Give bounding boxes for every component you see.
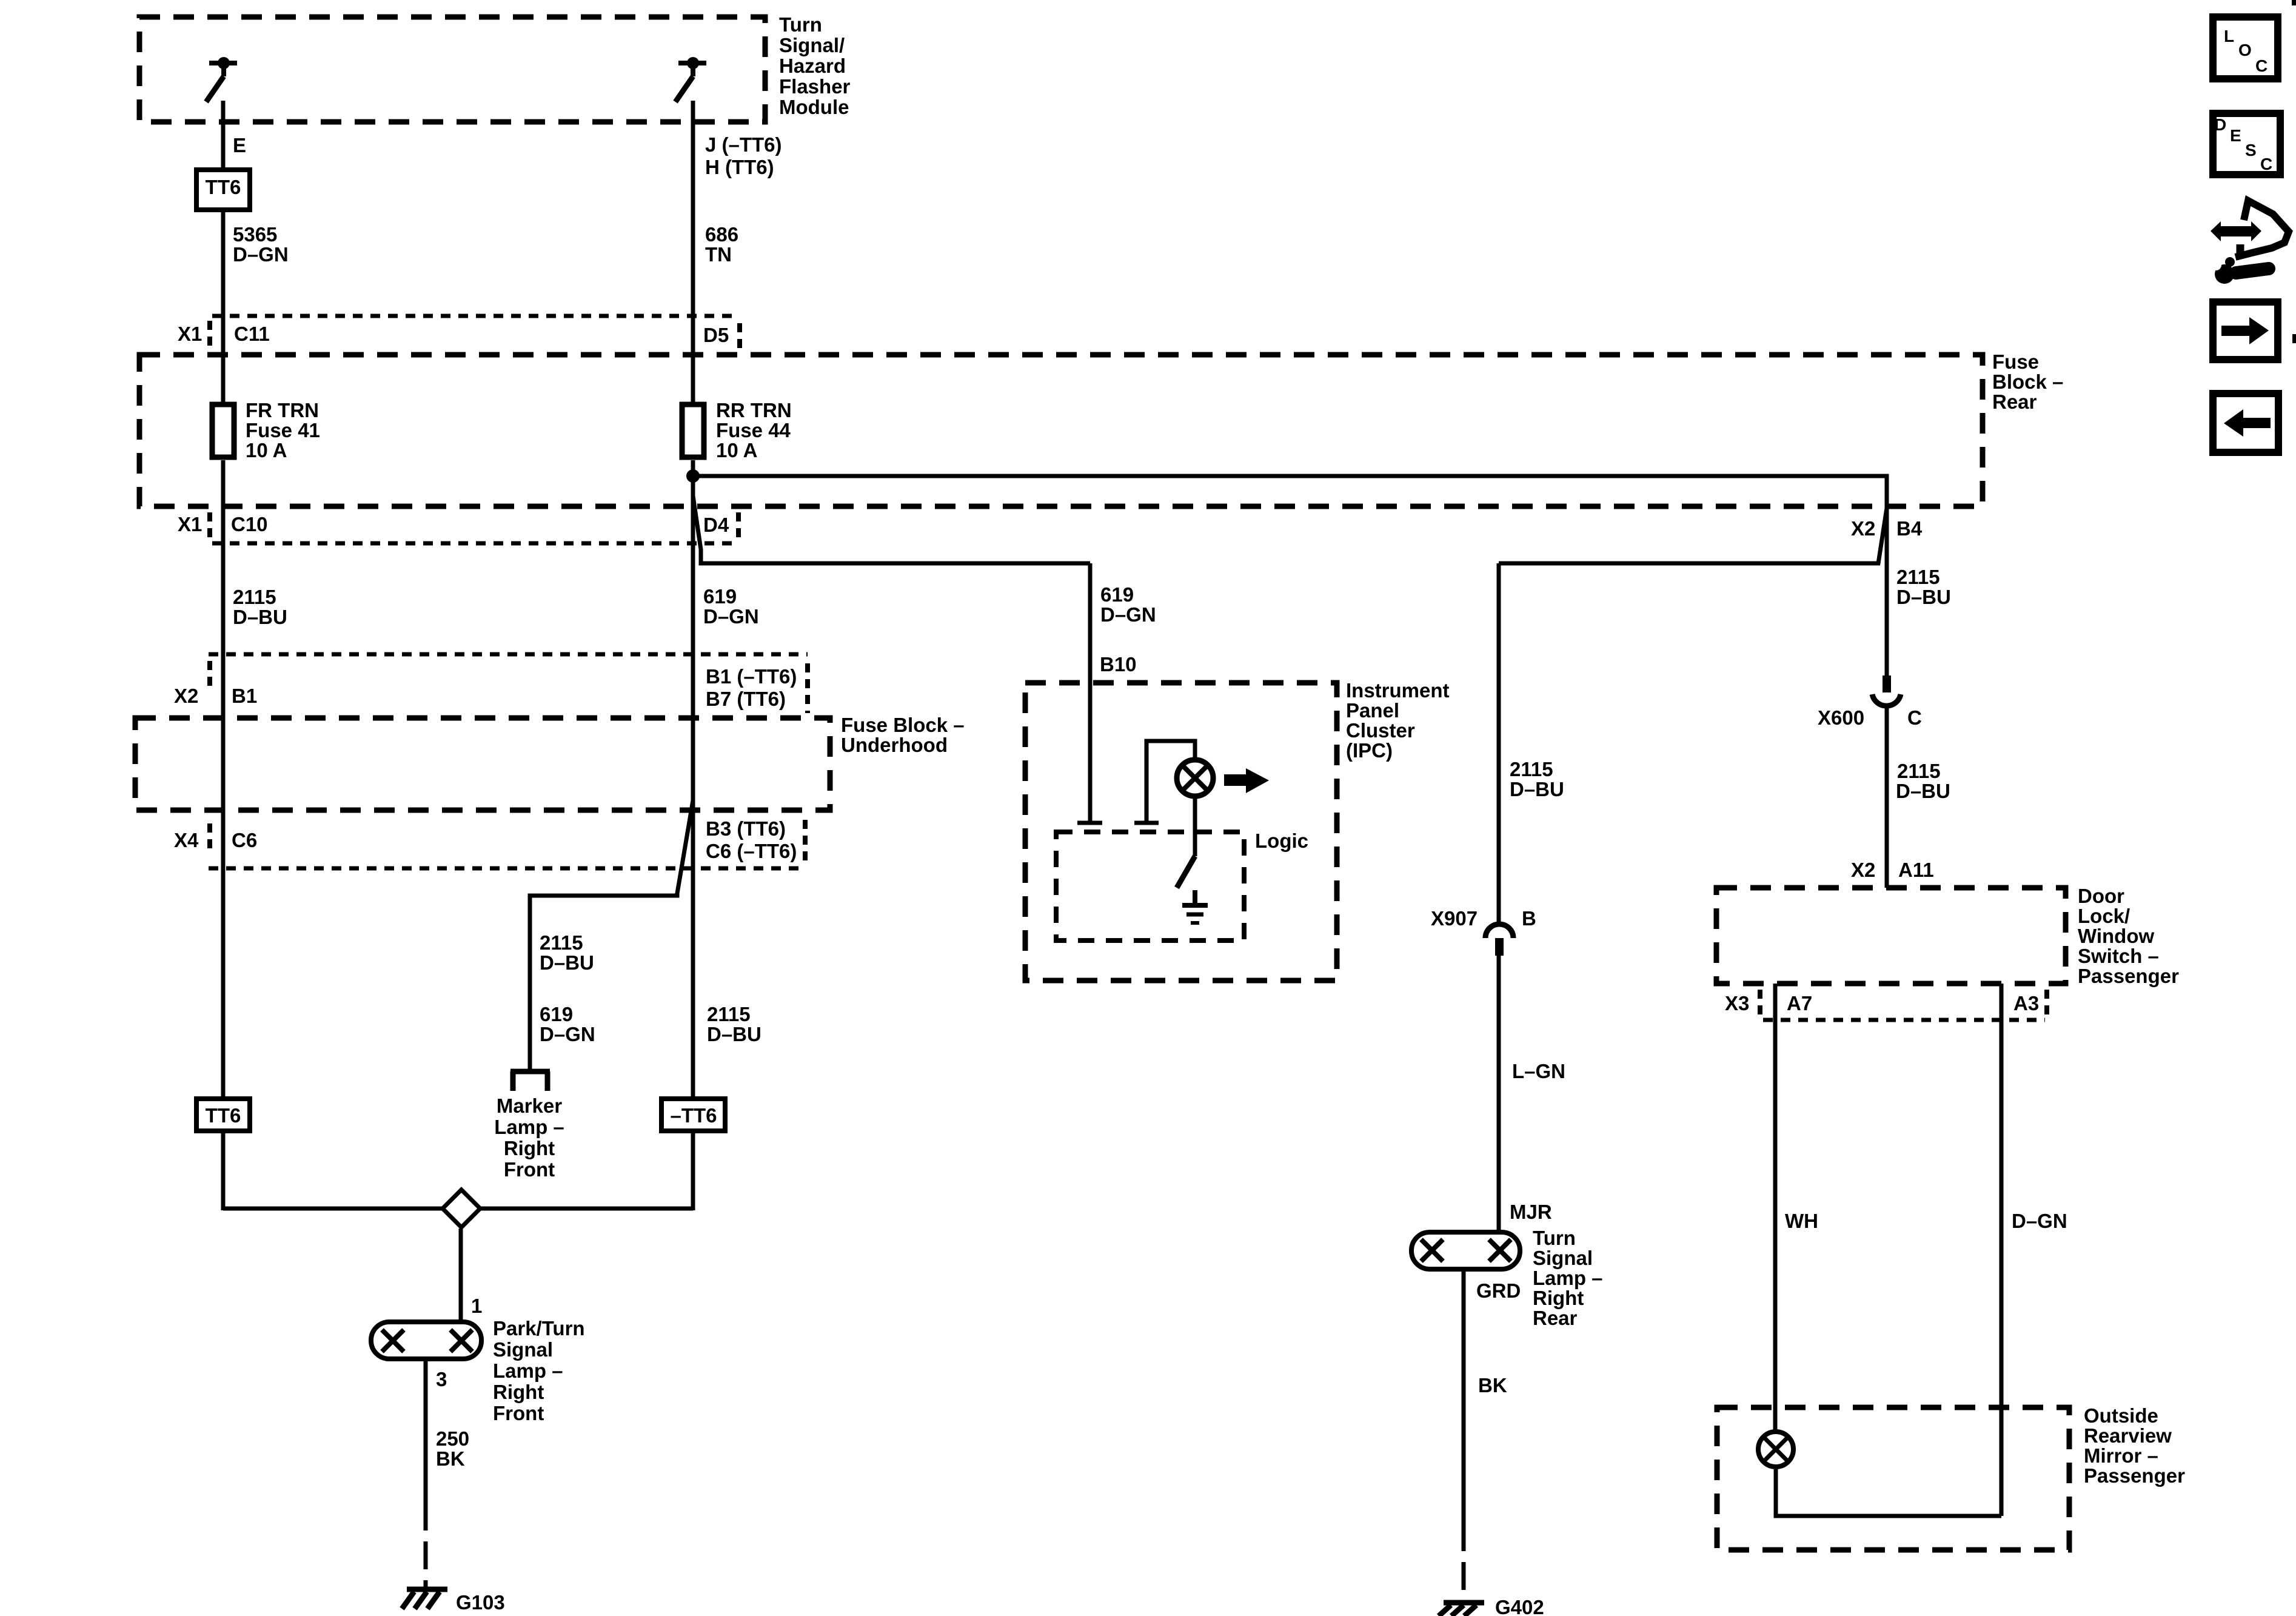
wire X907 to MJR lamp (L-GN)	[1497, 956, 1501, 1231]
svg-text:C: C	[2260, 155, 2272, 173]
svg-text:E: E	[233, 134, 246, 156]
svg-text:BK: BK	[1478, 1374, 1507, 1396]
switch contact right (flasher output J/H)	[675, 57, 706, 102]
inline connector X600 pin C	[1872, 676, 1901, 706]
wire slant at B3 to marker lamp branch (2115 D-BU / 619 D-GN)	[530, 800, 693, 1069]
wire label 2115 D-BU X907 branch	[1510, 758, 1564, 800]
IPC label	[1346, 679, 1450, 762]
svg-text:B10: B10	[1100, 653, 1137, 676]
svg-text:Signal/: Signal/	[779, 34, 845, 56]
svg-text:C6 (–TT6): C6 (–TT6)	[706, 840, 797, 862]
inline connector X907 pin B	[1485, 924, 1513, 956]
connector labels X2 A11	[1851, 859, 1934, 881]
svg-text:X600: X600	[1818, 706, 1864, 729]
svg-text:Lamp –: Lamp –	[494, 1116, 564, 1138]
svg-text:D–GN: D–GN	[540, 1023, 595, 1045]
svg-text:(IPC): (IPC)	[1346, 739, 1393, 762]
svg-text:–TT6: –TT6	[670, 1104, 717, 1127]
svg-text:S: S	[2245, 141, 2257, 159]
pin label D4	[703, 514, 729, 536]
svg-text:C6: C6	[232, 829, 257, 851]
svg-text:TT6: TT6	[206, 1104, 241, 1127]
svg-text:Outside: Outside	[2084, 1404, 2158, 1427]
ground label G103	[456, 1591, 505, 1614]
svg-text:B: B	[1522, 907, 1536, 930]
svg-text:Instrument: Instrument	[1346, 679, 1450, 702]
connector X907 labels	[1431, 907, 1536, 930]
svg-text:Fuse: Fuse	[1992, 350, 2039, 373]
svg-text:C: C	[2255, 56, 2268, 75]
wire label L-GN	[1512, 1060, 1565, 1082]
svg-text:BK: BK	[436, 1447, 465, 1470]
IPC turn indicator lamp (circle X)	[1177, 760, 1213, 796]
svg-text:B1 (–TT6): B1 (–TT6)	[706, 665, 797, 688]
svg-text:250: 250	[436, 1427, 469, 1450]
connector row X1/C11-D5 dotted line	[210, 316, 740, 348]
wire A7 to mirror lamp (WH)	[1773, 984, 1778, 1430]
svg-text:D–BU: D–BU	[707, 1023, 761, 1045]
svg-text:Underhood: Underhood	[841, 734, 948, 756]
fuse 44 label	[716, 399, 792, 461]
svg-text:B4: B4	[1896, 517, 1923, 540]
svg-text:G402: G402	[1495, 1596, 1544, 1616]
wire down to X907 (2115 D-BU)	[1497, 563, 1501, 922]
vehicle diagnostic icon (car outline, double arrow, wrench)	[2211, 201, 2289, 284]
bus wire between front lamp wires	[223, 1207, 693, 1211]
wire label BK	[1478, 1374, 1507, 1396]
svg-text:D4: D4	[703, 514, 729, 536]
svg-text:Module: Module	[779, 96, 849, 118]
IPC lamp feed loop wire	[1134, 741, 1195, 823]
svg-text:1: 1	[471, 1295, 482, 1317]
fuse block rear label	[1992, 350, 2063, 413]
svg-text:Rear: Rear	[1992, 391, 2037, 413]
wire label 619 D-GN left lamp branch	[540, 1003, 595, 1045]
Fuse Block - Rear box	[139, 355, 1983, 506]
svg-text:X2: X2	[174, 685, 198, 707]
wire label 2115 D-BU to X600	[1896, 760, 1950, 802]
wire left bottom TT6 to bus	[221, 1133, 226, 1210]
wire label 619 D-GN mid	[703, 585, 759, 628]
svg-text:RR TRN: RR TRN	[716, 399, 792, 421]
wire right -TT6 box to bus	[691, 1133, 695, 1210]
svg-text:X1: X1	[178, 513, 202, 535]
svg-text:Door: Door	[2078, 885, 2124, 907]
svg-text:Right: Right	[1533, 1287, 1584, 1309]
wire B10 drop into IPC	[1077, 563, 1102, 823]
park/turn lamp label	[493, 1317, 585, 1424]
svg-text:C11: C11	[234, 323, 270, 345]
svg-text:E: E	[2230, 126, 2241, 145]
svg-text:Block –: Block –	[1992, 370, 2063, 393]
svg-text:X2: X2	[1851, 517, 1875, 540]
page edge tick right	[2292, 334, 2296, 343]
Fuse Block - Underhood box	[135, 718, 830, 810]
svg-text:X3: X3	[1725, 992, 1749, 1014]
svg-text:C10: C10	[231, 513, 268, 535]
svg-text:Front: Front	[493, 1402, 544, 1424]
svg-text:G103: G103	[456, 1591, 505, 1614]
wire B4 down to X600 (2115 D-BU)	[1885, 508, 1889, 676]
svg-text:Fuse Block –: Fuse Block –	[841, 714, 965, 736]
fuse 41 label	[246, 399, 320, 461]
LOC icon box	[2213, 17, 2278, 79]
wire park/turn lamp pin 3 (250 BK)	[424, 1360, 428, 1591]
connector labels X2 B4	[1851, 517, 1923, 540]
svg-text:D5: D5	[703, 324, 729, 346]
svg-text:L: L	[2224, 27, 2234, 45]
svg-text:Rear: Rear	[1533, 1307, 1578, 1329]
svg-text:Turn: Turn	[779, 13, 822, 36]
pin label D5	[703, 324, 729, 346]
marker lamp right front connector symbol	[510, 1071, 550, 1091]
svg-text:X4: X4	[174, 829, 199, 851]
wire label 2115 D-BU right	[1896, 566, 1951, 608]
svg-text:A7: A7	[1787, 992, 1812, 1014]
svg-text:D–GN: D–GN	[1100, 603, 1156, 626]
svg-text:Signal: Signal	[493, 1338, 553, 1361]
Turn Signal/Hazard Flasher Module box	[139, 17, 765, 122]
svg-text:D: D	[2214, 115, 2226, 134]
svg-text:Right: Right	[493, 1381, 544, 1403]
wire label 2115 D-BU left	[233, 586, 287, 628]
wire horizontal fuse44 junction to fuse block rear right side	[693, 476, 1887, 508]
module name label	[779, 13, 851, 118]
svg-text:Park/Turn: Park/Turn	[493, 1317, 585, 1339]
TT6 option box top	[196, 170, 250, 210]
svg-text:D–BU: D–BU	[1896, 586, 1951, 608]
svg-text:10 A: 10 A	[716, 439, 757, 461]
pin label B10	[1100, 653, 1137, 676]
svg-text:D–BU: D–BU	[1510, 778, 1564, 800]
outside rearview mirror label	[2084, 1404, 2185, 1487]
svg-text:Logic: Logic	[1255, 830, 1308, 852]
svg-text:J (–TT6): J (–TT6)	[705, 133, 782, 156]
svg-text:MJR: MJR	[1510, 1201, 1552, 1223]
svg-text:2115: 2115	[540, 931, 583, 954]
svg-text:2115: 2115	[233, 586, 276, 608]
svg-text:L–GN: L–GN	[1512, 1060, 1565, 1082]
wire slant at B4 to horizontal branch	[1499, 508, 1887, 563]
svg-text:619: 619	[1100, 583, 1134, 606]
Door Lock/Window Switch - Passenger box	[1716, 888, 2066, 984]
wire MJR lamp GRD to G402 (BK)	[1462, 1272, 1466, 1602]
svg-text:TN: TN	[705, 243, 732, 266]
-TT6 option box bottom right	[661, 1099, 725, 1131]
connector row X4/C6 dotted line	[209, 820, 805, 868]
Logic box	[1056, 832, 1244, 940]
wire label 686 TN	[705, 223, 738, 266]
fuse FR TRN Fuse 41 10A	[212, 404, 234, 457]
svg-text:Lamp –: Lamp –	[493, 1360, 563, 1382]
svg-text:Window: Window	[2078, 925, 2154, 947]
svg-text:10 A: 10 A	[246, 439, 287, 461]
page edge tick top right	[2292, 0, 2296, 5]
svg-text:Lock/: Lock/	[2078, 905, 2130, 927]
wire diamond to park/turn lamp pin 1	[459, 1229, 463, 1322]
pin E label	[233, 134, 246, 156]
pin label GRD	[1476, 1279, 1521, 1302]
pin labels B1/B7	[706, 665, 797, 710]
junction dot below fuse 44	[686, 469, 700, 483]
svg-text:B1: B1	[232, 685, 257, 707]
svg-text:Switch –: Switch –	[2078, 945, 2159, 967]
svg-text:Passenger: Passenger	[2084, 1464, 2185, 1487]
svg-text:3: 3	[436, 1368, 447, 1390]
wire label 250 BK	[436, 1427, 469, 1470]
svg-text:TT6: TT6	[206, 176, 241, 198]
wire A3 to mirror (D-GN)	[2000, 984, 2004, 1516]
door lock/window switch label	[2078, 885, 2179, 987]
DESC icon box	[2213, 113, 2280, 175]
svg-text:B3 (TT6): B3 (TT6)	[706, 817, 786, 840]
connector labels X4 C6	[174, 829, 257, 851]
svg-text:Cluster: Cluster	[1346, 719, 1415, 742]
connector row X2/B1 dotted line	[209, 654, 808, 713]
MJR lamp label	[1510, 1201, 1603, 1329]
connector labels X2 B1	[174, 685, 257, 707]
svg-text:Hazard: Hazard	[779, 55, 846, 77]
ground G402	[1439, 1603, 1484, 1616]
park/turn signal lamp right front (bulb symbol)	[371, 1322, 481, 1359]
wire labels WH / D-GN	[1785, 1210, 2067, 1232]
svg-text:Flasher: Flasher	[779, 75, 851, 98]
switch contact left (hazard flasher output E)	[206, 57, 237, 102]
mirror turn signal lamp (circle X)	[1758, 1432, 1793, 1467]
svg-text:C: C	[1907, 706, 1922, 729]
svg-text:Fuse 44: Fuse 44	[716, 419, 791, 441]
svg-text:Front: Front	[504, 1158, 555, 1181]
svg-text:Fuse 41: Fuse 41	[246, 419, 320, 441]
wire X600 to door switch A11	[1885, 708, 1889, 888]
connector row X3/A7-A3 dotted line	[1760, 990, 2047, 1020]
svg-text:Mirror –: Mirror –	[2084, 1444, 2158, 1467]
Instrument Panel Cluster (IPC) box	[1025, 683, 1337, 981]
left arrow icon box	[2213, 394, 2278, 452]
svg-text:619: 619	[540, 1003, 573, 1025]
connector labels X3 A7 A3	[1725, 992, 2039, 1014]
svg-text:B7 (TT6): B7 (TT6)	[706, 688, 786, 710]
svg-text:Rearview: Rearview	[2084, 1424, 2172, 1447]
svg-text:D–GN: D–GN	[233, 243, 289, 266]
wire left fuse 41 to bottom TT6 (2115 D-BU)	[221, 460, 226, 1096]
wire label 5365 D-GN	[233, 223, 289, 266]
svg-text:D–BU: D–BU	[1896, 780, 1950, 802]
svg-text:X1: X1	[178, 323, 202, 345]
svg-text:2115: 2115	[1510, 758, 1553, 780]
IPC output arrow	[1224, 768, 1269, 793]
right arrow icon box	[2213, 302, 2278, 360]
connector labels X1 C10	[178, 513, 268, 535]
logic ground symbol	[1182, 890, 1208, 923]
svg-text:X907: X907	[1431, 907, 1478, 930]
MJR turn signal lamp right rear (bulb symbol)	[1411, 1232, 1520, 1269]
svg-text:D–BU: D–BU	[540, 951, 594, 974]
marker lamp label	[494, 1095, 564, 1181]
svg-text:X2: X2	[1851, 859, 1875, 881]
svg-text:Right: Right	[504, 1137, 555, 1159]
ground G103	[402, 1589, 447, 1609]
logic label	[1255, 830, 1308, 852]
pins J/H labels	[705, 133, 782, 178]
fuse block underhood label	[841, 714, 965, 756]
svg-text:Panel: Panel	[1346, 699, 1399, 722]
wire left TT6 to fuse 41	[221, 212, 226, 402]
pin labels B3/C6	[706, 817, 797, 862]
wire slant at D4 to horizontal branch (619 D-GN)	[693, 496, 1090, 563]
svg-text:H (TT6): H (TT6)	[705, 156, 774, 178]
svg-text:2115: 2115	[707, 1003, 751, 1025]
svg-text:D–BU: D–BU	[233, 606, 287, 628]
TT6 option box bottom left	[196, 1099, 250, 1131]
svg-text:Marker: Marker	[497, 1095, 562, 1117]
svg-text:Signal: Signal	[1533, 1247, 1593, 1269]
connector row X1/C10-D4 dotted line	[210, 512, 738, 543]
pin label 1	[471, 1295, 482, 1317]
ground label G402	[1495, 1596, 1544, 1616]
svg-text:Passenger: Passenger	[2078, 965, 2179, 987]
splice diamond	[443, 1190, 480, 1227]
svg-text:619: 619	[703, 585, 737, 608]
svg-text:5365: 5365	[233, 223, 277, 246]
wire left E to TT6	[221, 101, 226, 167]
wire mirror lamp bottom loop	[1776, 1469, 2001, 1516]
svg-text:D–GN: D–GN	[2012, 1210, 2067, 1232]
pin label 3	[436, 1368, 447, 1390]
wire label 2115 D-BU right lamp branch	[707, 1003, 761, 1045]
connector X600 labels	[1818, 706, 1922, 729]
IPC lamp to logic switch wire	[1177, 799, 1195, 888]
svg-text:686: 686	[705, 223, 738, 246]
wire label 2115 D-BU left lamp branch	[540, 931, 594, 974]
svg-text:2115: 2115	[1896, 566, 1940, 588]
svg-text:WH: WH	[1785, 1210, 1818, 1232]
svg-text:Turn: Turn	[1533, 1227, 1576, 1249]
svg-text:2115: 2115	[1897, 760, 1941, 782]
wire right J/H to fuse 44	[691, 101, 695, 402]
svg-text:A3: A3	[2013, 992, 2039, 1014]
wire right fuse 44 to -TT6 box (686 TN / 619 D-GN / 2115 D-BU)	[691, 460, 695, 1096]
svg-text:FR TRN: FR TRN	[246, 399, 319, 421]
wire label 619 D-GN branch	[1100, 583, 1156, 626]
connector labels X1 C11	[178, 323, 270, 345]
fuse RR TRN Fuse 44 10A	[682, 404, 704, 457]
Outside Rearview Mirror - Passenger box	[1717, 1407, 2069, 1550]
svg-text:Lamp –: Lamp –	[1533, 1267, 1603, 1289]
svg-text:D–GN: D–GN	[703, 605, 759, 628]
svg-text:O: O	[2238, 41, 2252, 59]
svg-text:A11: A11	[1898, 859, 1934, 881]
svg-text:GRD: GRD	[1476, 1279, 1521, 1302]
